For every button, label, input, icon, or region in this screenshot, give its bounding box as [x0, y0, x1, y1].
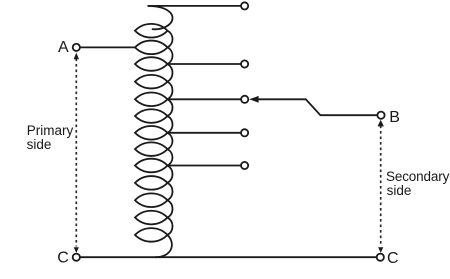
svg-text:side: side [387, 183, 412, 198]
terminal B [377, 112, 384, 119]
terminal C left [73, 254, 80, 261]
svg-text:Primary: Primary [27, 123, 74, 138]
svg-text:C: C [387, 250, 399, 267]
tap wire 1 [168, 63, 242, 65]
terminal A [73, 44, 80, 51]
terminal C right [377, 254, 384, 261]
secondary span arrow down [378, 247, 383, 253]
tap wire 4 [168, 165, 242, 167]
tap wire 2 [168, 98, 242, 100]
primary span arrow up [74, 53, 79, 60]
svg-text:B: B [389, 109, 400, 126]
tap wire 3 [168, 132, 242, 134]
top tap wire [148, 5, 242, 7]
primary span arrow down [74, 247, 79, 253]
svg-text:side: side [27, 137, 52, 152]
secondary span arrow up [378, 120, 384, 127]
primary side dashed span [75, 59, 77, 247]
secondary side dashed span [380, 126, 382, 247]
svg-text:Secondary: Secondary [386, 169, 450, 184]
wire A to winding [80, 46, 135, 48]
wiper select wire from B [257, 99, 377, 115]
tap terminal 2 [241, 96, 248, 103]
autotransformer winding L1 [135, 6, 173, 257]
tap terminal 1 [241, 60, 248, 67]
tap terminal 3 [241, 129, 248, 136]
svg-text:C: C [57, 250, 69, 267]
top tap terminal [241, 2, 248, 9]
wiper arrowhead [249, 96, 258, 103]
svg-text:A: A [58, 39, 69, 56]
bottom wire C to C [80, 256, 376, 258]
tap terminal 4 [241, 162, 248, 169]
